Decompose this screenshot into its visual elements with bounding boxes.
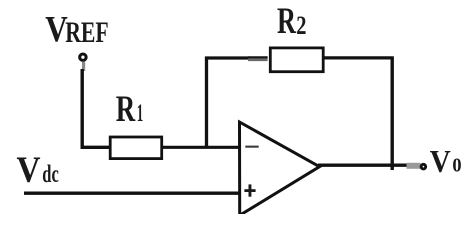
- svg-text:dc: dc: [42, 159, 59, 188]
- svg-text:V: V: [430, 143, 451, 179]
- svg-text:V: V: [17, 150, 41, 191]
- svg-text:REF: REF: [65, 16, 109, 49]
- svg-text:R: R: [116, 89, 136, 130]
- svg-text:1: 1: [137, 100, 144, 127]
- svg-text:R: R: [277, 1, 297, 42]
- svg-text:0: 0: [452, 156, 461, 177]
- svg-text:2: 2: [296, 11, 306, 40]
